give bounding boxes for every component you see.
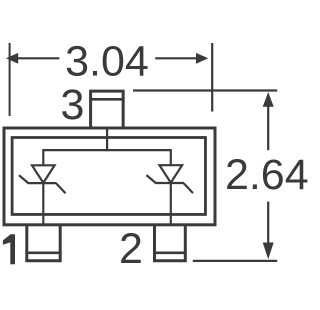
svg-text:2.64: 2.64 bbox=[225, 151, 309, 199]
svg-text:2: 2 bbox=[119, 225, 143, 273]
svg-text:3: 3 bbox=[60, 81, 84, 129]
svg-text:3.04: 3.04 bbox=[65, 38, 149, 86]
